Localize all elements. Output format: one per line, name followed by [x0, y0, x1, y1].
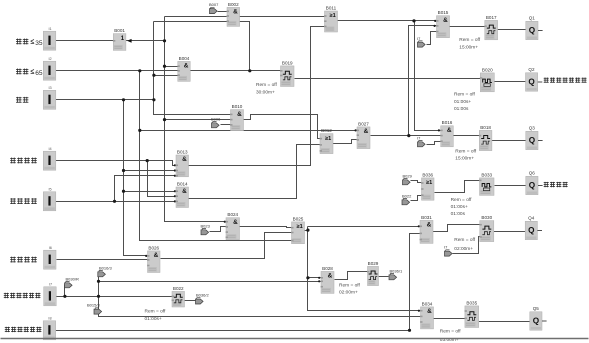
svg-text:≥1: ≥1 [297, 224, 303, 230]
input connection dot at 174.9,165.3 [174, 164, 176, 166]
wire I3 远控 to bus x153.9 [56, 99, 154, 101]
svg-text:B016: B016 [442, 120, 453, 125]
svg-text:&: & [447, 127, 452, 134]
svg-text:I5: I5 [49, 187, 52, 191]
svg-text:Rem = off: Rem = off [455, 149, 477, 155]
input connection dot at 418.9,310.7 [418, 310, 420, 312]
svg-text:≥1: ≥1 [330, 13, 336, 19]
svg-text:&: & [182, 188, 187, 195]
svg-text:&: & [233, 219, 238, 226]
bottom border line [1, 338, 589, 340]
svg-text:B022: B022 [173, 286, 184, 291]
svg-text:15:00m+: 15:00m+ [459, 44, 478, 50]
svg-text:B035: B035 [466, 300, 477, 305]
svg-text:B036: B036 [422, 172, 433, 177]
svg-text:Q: Q [533, 316, 540, 325]
junction at 153.9,75.2 [152, 74, 155, 77]
svg-text:I7: I7 [49, 282, 52, 286]
wire flag B023 to B024 input 2 [210, 227, 227, 232]
svg-text:B015/3: B015/3 [87, 303, 100, 308]
label 阀门故障 at Q6 [544, 182, 549, 187]
wire B002 output to B011 input 1 [240, 16, 325, 18]
svg-text:B033: B033 [481, 172, 492, 177]
wire I7 riser x98.5 down to B034 input 2 [99, 297, 421, 317]
bus x147.2 net I4 to B014 input 2 [148, 161, 177, 197]
wire I7 riser to flag B030/R [64, 285, 66, 297]
wire B022 output to flag B036/2 [185, 300, 196, 302]
svg-text:B010: B010 [232, 104, 243, 109]
input connection dot at 438.9,130.4 [438, 129, 440, 131]
svg-text:35: 35 [35, 40, 43, 47]
svg-text:30:00m+: 30:00m+ [256, 90, 275, 96]
junction at 98.5,281.3 [97, 280, 100, 283]
svg-text:B022: B022 [402, 193, 412, 198]
svg-text:Q5: Q5 [533, 306, 540, 311]
bus x123.5 net 远控 down [124, 100, 148, 256]
svg-text:B018: B018 [480, 125, 491, 130]
wire B036 output to B033 [435, 181, 480, 193]
wire B011 net riser x414 to B016 input 1 [415, 21, 441, 131]
label 排污门开位置 for input I7 [4, 293, 9, 298]
wire B025 output net [305, 230, 308, 232]
svg-text:I8: I8 [48, 316, 51, 320]
svg-text:B017: B017 [486, 15, 497, 20]
junction at 139.8,70.8 [138, 69, 141, 72]
label 出口压力低报警 at Q2 [544, 78, 549, 83]
junction at 409.5,330.3 [408, 329, 411, 332]
input connection dot at 174.9,170.5 [174, 169, 176, 171]
wire B029 output to flag B036/1 [379, 276, 389, 278]
wire B012 output to B027 input 3 [333, 140, 357, 144]
wire B010 output to B012 input 1 [244, 115, 321, 139]
svg-text:I1: I1 [49, 27, 52, 31]
junction at 307.9,277.8 [306, 276, 309, 279]
wire B034 output to B035 [434, 318, 465, 320]
input connection dot at 319.2,281.3 [318, 280, 320, 282]
bus x139.8 net I2 [140, 71, 292, 241]
svg-text:B027: B027 [358, 121, 369, 126]
wire B014 output to B012 input 2 [189, 145, 321, 199]
label 手动排污 for input I6 [10, 257, 16, 263]
svg-text:Q3: Q3 [529, 126, 536, 131]
junction at 147.2,160.6 [146, 159, 149, 162]
wire B004 input 3 from bus x153.9 [154, 75, 178, 77]
junction at 164.5,119.6 [163, 118, 166, 121]
svg-text:B014: B014 [177, 181, 188, 186]
wire B013 output to B011 input 3 [189, 27, 325, 166]
wire I7 to B022 [56, 296, 173, 298]
wire B016 output to B018 [454, 135, 480, 137]
svg-text:&: & [364, 128, 369, 135]
wire feed line y21.3 to riser x249.8 [154, 22, 250, 71]
junction at 408.8,135.6 [407, 134, 410, 137]
svg-text:&: & [182, 156, 187, 163]
wire B018 output to Q3 [492, 140, 526, 142]
wire 远控 branch to B013 input 2 [124, 170, 177, 172]
input connection dot at 174.9,191.2 [174, 190, 176, 192]
svg-text:Q: Q [529, 26, 536, 35]
input connection dot at 174.9,175.7 [174, 175, 176, 177]
svg-text:B004: B004 [179, 56, 190, 61]
svg-text:&: & [154, 252, 159, 259]
junction at 123.5,170.5 [122, 169, 125, 172]
svg-text:I6: I6 [49, 246, 52, 250]
svg-text:&: & [443, 17, 448, 24]
wire I8 to riser x409.5 [56, 330, 410, 332]
svg-text:B020: B020 [482, 67, 493, 72]
svg-text:B007: B007 [209, 2, 219, 7]
label 压力≤65 for input I2 [16, 69, 22, 75]
svg-text:&: & [328, 273, 333, 280]
svg-text:&: & [427, 308, 432, 315]
svg-text:B029: B029 [368, 261, 379, 266]
input connection dot at 418.8,226.3 [418, 225, 420, 227]
wire B028 output to B029 [335, 272, 368, 280]
inversion arrow at B001 output [127, 39, 132, 43]
junction at 114.5,201.3 [113, 200, 116, 203]
label 手动反转 for input I5 [10, 198, 16, 204]
svg-text:&: & [237, 111, 242, 118]
wire B019 output to B020 [295, 78, 481, 80]
svg-text:B023: B023 [201, 223, 211, 228]
svg-text:Rem = off: Rem = off [440, 329, 462, 335]
input connection dot at 435.2,20.9 [434, 20, 436, 22]
junction at 249.8,70.8 [248, 69, 251, 72]
wire B031 output to B030 [433, 225, 480, 232]
svg-text:B013: B013 [177, 149, 188, 154]
svg-text:I4: I4 [49, 147, 52, 151]
svg-text:Rem = off: Rem = off [454, 237, 476, 243]
wire B015 output to B017 [450, 26, 485, 28]
wire flag B007 to B002 input 1 [218, 11, 227, 13]
svg-text:01:00s: 01:00s [454, 106, 469, 112]
wire flag near B015 to input 3 [427, 32, 437, 45]
wire B004 output to B019 [191, 70, 281, 72]
wire B004 input 1 from bus x164.5 [165, 66, 178, 68]
svg-text:Rem = off: Rem = off [451, 197, 473, 203]
bus x153.9 net 远控 vertical [154, 22, 231, 115]
svg-text:B012: B012 [321, 128, 332, 133]
svg-text:B024: B024 [227, 212, 238, 217]
svg-text:Q: Q [529, 181, 536, 190]
svg-text:Q2: Q2 [528, 67, 535, 72]
svg-text:B034: B034 [422, 301, 433, 306]
input connection dot at 224.8,221.7 [224, 221, 226, 223]
wire B001 output to bus x164.5 [126, 40, 165, 42]
svg-text:Rem = off: Rem = off [339, 283, 361, 289]
wire B026 output to B025 input 2 [161, 233, 292, 259]
junction at 307.9,230.1 [306, 229, 309, 232]
svg-text:02:00m+: 02:00m+ [339, 290, 358, 296]
input connection dot at 355.6,130.4 [355, 129, 357, 131]
svg-text:Rem = off: Rem = off [145, 309, 167, 315]
input connection dot at 174.9,196.2 [174, 195, 176, 197]
wire B027 net riser x408.8 to B015 input 2 [409, 26, 437, 136]
svg-text:B002: B002 [228, 2, 239, 7]
wire B024 output to B025 input 1 [240, 227, 292, 228]
wire B017 output to Q1 [498, 29, 526, 31]
junction at 164.5,66.2 [163, 65, 166, 68]
bus x114.5 net I5 to B013 input 3 [115, 176, 177, 202]
label 排污门关位置 for input I8 [5, 327, 10, 332]
svg-text:Q4: Q4 [528, 216, 535, 221]
wire I4 to B013 input 1 [56, 161, 177, 166]
wire I7 riser x98.5 up to flag B016/3 [98, 273, 100, 297]
wire B033 output to Q6 [495, 185, 526, 187]
svg-text:Q1: Q1 [529, 16, 536, 21]
junction at 98.5,296.3 [97, 295, 100, 298]
svg-text:B006: B006 [211, 117, 221, 122]
wire I6 to B026 input 2 [57, 259, 148, 261]
junction at 414,20.9 [412, 19, 415, 22]
bus x164.5 net B001 output [165, 17, 227, 222]
svg-text:Rem = off: Rem = off [459, 37, 481, 43]
wire I5 to B014 input 3 [56, 201, 177, 203]
svg-text:Q: Q [528, 226, 535, 235]
junction at 123.5,191.2 [122, 190, 125, 193]
junction at 153.9,99.8 [152, 98, 155, 101]
wire B027 output to B016 input 2 [371, 135, 441, 137]
svg-text:I3: I3 [49, 86, 52, 90]
svg-text:15:00m+: 15:00m+ [455, 156, 474, 162]
wire B010 input 2 from bus x164.5 [165, 119, 231, 121]
svg-text:B028: B028 [322, 266, 333, 271]
wire flag B022 to B036 input 3 [411, 196, 422, 201]
wire 远控 branch to B014 input 1 [124, 191, 177, 193]
svg-text:01:00s+: 01:00s+ [145, 316, 162, 322]
svg-text:≥1: ≥1 [325, 136, 331, 142]
svg-text:B030/R: B030/R [66, 276, 79, 281]
svg-text:01:00s+: 01:00s+ [451, 204, 468, 210]
wire flag near B016 to input 3 [427, 142, 441, 145]
svg-text:B029: B029 [403, 173, 413, 178]
wire B020 output to Q2 [495, 81, 526, 83]
input connection dot at 146.2,255.9 [145, 255, 147, 257]
svg-text:Q: Q [528, 77, 535, 86]
svg-text:B031: B031 [421, 215, 432, 220]
wire flag B029 to B036 input 1 [411, 181, 422, 183]
svg-text:02:00m+: 02:00m+ [454, 246, 473, 252]
wire I2 to B004 input 2 [56, 70, 178, 72]
svg-text:B016/3: B016/3 [99, 265, 112, 270]
junction at 164.5,40.8 [163, 39, 166, 42]
wire long y281.3 from I7 branch to B028 input 2 [99, 281, 321, 283]
svg-text:Rem = off: Rem = off [256, 82, 278, 88]
svg-text:B036/1: B036/1 [390, 268, 403, 273]
svg-text:B011: B011 [326, 5, 337, 10]
svg-text:&: & [427, 222, 432, 229]
svg-text:B026: B026 [148, 245, 159, 250]
junction at 123.5,99.8 [122, 98, 125, 101]
wire flag B006 to B010 input 3 [221, 124, 231, 126]
wire B011 output to B015 input 1 [338, 20, 437, 22]
svg-text:≥1: ≥1 [426, 180, 432, 186]
svg-text:&: & [233, 9, 238, 16]
input connection dot at 319.2,277.8 [318, 277, 320, 279]
svg-text:I2: I2 [49, 57, 52, 61]
svg-text:Rem = off: Rem = off [454, 92, 476, 98]
svg-text:65: 65 [35, 70, 43, 77]
junction at 139.8,130.4 [138, 129, 141, 132]
svg-text:B015: B015 [438, 10, 449, 15]
svg-text:B036/2: B036/2 [196, 293, 209, 298]
wire riser x409.5 to B031 input 2 [410, 234, 421, 331]
label 手动正转 for input I4 [10, 158, 16, 164]
junction at 64.9,296.3 [63, 295, 66, 298]
svg-text:Q6: Q6 [529, 171, 536, 176]
wire flag to B030 R input [453, 237, 480, 254]
svg-text:B030: B030 [481, 215, 492, 220]
svg-text:01:00s: 01:00s [451, 211, 466, 217]
svg-text:&: & [184, 63, 189, 70]
svg-text:B001: B001 [114, 28, 125, 33]
label 压力≤35 for input I1 [16, 39, 22, 45]
svg-text:01:00s+: 01:00s+ [454, 99, 471, 105]
svg-text:Q: Q [529, 136, 536, 145]
wire B030 output to Q4 [494, 231, 526, 233]
input connection dot at 174.9,201.4 [174, 200, 176, 202]
label 远控 for input I3 [16, 97, 22, 103]
wire I2 branch y130.4 to B027 input 1 [140, 130, 356, 132]
svg-text:B025: B025 [293, 216, 304, 221]
wire B035 output to Q5 [479, 321, 530, 323]
input connection dot at 434.6,25.9 [434, 25, 436, 27]
svg-text:B019: B019 [282, 60, 293, 65]
wire I1 to B001 [56, 40, 114, 42]
